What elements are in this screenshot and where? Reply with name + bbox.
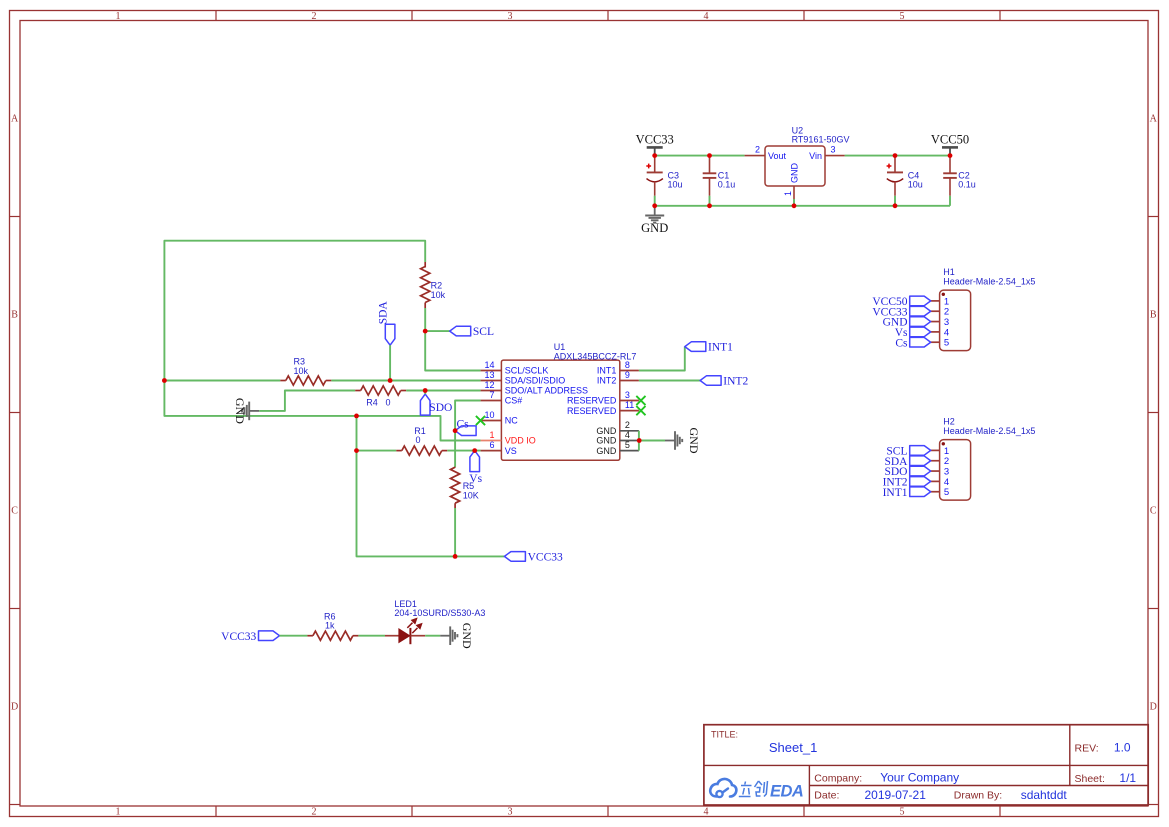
U2 pin 2 Vout <box>745 155 765 157</box>
svg-text:VS: VS <box>505 446 517 456</box>
svg-text:RESERVED: RESERVED <box>567 406 617 416</box>
svg-text:Date:: Date: <box>814 790 839 802</box>
junction <box>453 428 458 433</box>
net flag INT2 <box>700 376 748 388</box>
net flag SCL <box>450 326 494 338</box>
svg-text:11: 11 <box>625 400 634 410</box>
wire GND bottom rail <box>655 205 950 207</box>
svg-text:2: 2 <box>755 144 760 154</box>
svg-text:2: 2 <box>312 807 317 818</box>
junction <box>637 438 642 443</box>
net flag VCC33 (LED) <box>221 631 279 643</box>
svg-text:R3: R3 <box>294 357 306 367</box>
svg-text:SDA: SDA <box>377 301 389 325</box>
net flag INT2 (H2 pin 4) <box>883 476 931 488</box>
svg-text:TITLE:: TITLE: <box>711 729 738 739</box>
U1 pin 1 VDD IO <box>481 430 536 446</box>
svg-text:10k: 10k <box>294 366 309 376</box>
svg-text:1: 1 <box>116 11 121 22</box>
svg-text:SDO/ALT ADDRESS: SDO/ALT ADDRESS <box>505 386 588 396</box>
svg-text:204-10SURD/S530-A3: 204-10SURD/S530-A3 <box>394 608 485 618</box>
junction <box>893 153 898 158</box>
svg-text:5: 5 <box>900 11 905 22</box>
svg-text:Vout: Vout <box>768 151 787 161</box>
resistor R4 0 <box>355 386 406 407</box>
svg-text:Header-Male-2.54_1x5: Header-Male-2.54_1x5 <box>943 276 1035 286</box>
logo text 立创 (strokes) <box>739 781 768 797</box>
H1 pin 3 <box>931 317 949 328</box>
wire SDA line <box>164 380 280 382</box>
connector H1 Header-Male-2.54_1x5 body <box>940 267 1036 351</box>
resistor R6 1k <box>307 611 358 640</box>
svg-text:C: C <box>11 506 18 517</box>
op-amp U1 ADXL345BCCZ-RL7 body <box>501 342 636 460</box>
resistor R3 10k <box>280 357 331 385</box>
resistor R5 10K <box>451 467 479 508</box>
svg-text:Sheet_1: Sheet_1 <box>769 740 817 755</box>
U1 pin 13 SDA/SDI/SDIO <box>481 370 566 386</box>
H1 pin 1 <box>931 296 949 307</box>
net flag INT1 <box>685 342 733 354</box>
ground GND (U1 right) <box>665 428 701 454</box>
svg-text:1: 1 <box>783 191 793 196</box>
junction <box>472 448 477 453</box>
junction <box>652 153 657 158</box>
wire R6 to LED1 <box>358 635 385 637</box>
svg-text:GND: GND <box>596 446 617 456</box>
H1 pin 4 <box>931 327 949 338</box>
svg-text:4: 4 <box>625 430 630 440</box>
wire SDO flag stub <box>424 391 426 395</box>
resistor R2 10k <box>421 262 446 308</box>
svg-text:D: D <box>11 702 18 713</box>
net flag SDO <box>420 394 452 415</box>
svg-text:D: D <box>1150 702 1157 713</box>
wire R4 to SDO pin <box>406 390 480 392</box>
wire GND bracket U1 <box>638 431 640 451</box>
net flag INT1 (H2 pin 5) <box>883 487 931 499</box>
title block Date / Drawn By <box>814 788 1067 802</box>
svg-text:B: B <box>1150 310 1157 321</box>
U1 pin 4 GND <box>596 430 639 446</box>
U1 pin 3 RESERVED <box>567 390 639 406</box>
junction <box>652 203 657 208</box>
svg-text:Cs: Cs <box>457 418 470 430</box>
no-connect X pin 11 <box>636 406 645 415</box>
wire INT1 <box>639 347 685 371</box>
wire GND to R4 <box>259 391 355 411</box>
logo LCEDA cloud <box>710 779 736 797</box>
svg-text:R4: R4 <box>366 397 378 407</box>
svg-text:GND: GND <box>596 436 617 446</box>
wire bottom VCC33 rail <box>357 416 505 557</box>
svg-text:GND: GND <box>460 623 474 649</box>
wire CS# to R5 <box>455 401 481 468</box>
wire SDA flag drop <box>389 345 391 380</box>
ground GND (left, at R4) <box>233 398 259 424</box>
svg-text:13: 13 <box>484 370 494 380</box>
net flag Cs (H1 pin 5) <box>895 337 930 349</box>
svg-text:0: 0 <box>415 435 420 445</box>
svg-text:0.1u: 0.1u <box>718 180 736 190</box>
svg-text:CS#: CS# <box>505 396 523 406</box>
junction <box>423 388 428 393</box>
wire top-left rail <box>164 241 425 381</box>
svg-text:GND: GND <box>596 426 617 436</box>
wire R1 line from rail <box>357 450 397 452</box>
H2 pin 2 <box>931 456 949 467</box>
ground GND (power section) <box>641 206 668 235</box>
svg-text:7: 7 <box>489 390 494 400</box>
svg-text:5: 5 <box>944 338 949 349</box>
title block frame <box>704 725 1148 805</box>
wire R5 to bottom rail <box>454 508 456 556</box>
junction <box>388 378 393 383</box>
svg-text:Header-Male-2.54_1x5: Header-Male-2.54_1x5 <box>943 426 1035 436</box>
U1 pin 6 VS <box>481 440 517 456</box>
LED LED1 204-10SURD/S530-A3 <box>385 599 485 644</box>
junction <box>707 203 712 208</box>
capacitor C2 0.1u <box>943 156 976 206</box>
svg-text:5: 5 <box>900 807 905 818</box>
net flag SDO (H2 pin 3) <box>884 466 930 478</box>
svg-text:3: 3 <box>831 144 836 154</box>
svg-text:14: 14 <box>484 360 494 370</box>
net flag GND (H1 pin 3) <box>883 317 931 329</box>
title block Sheet <box>1075 771 1137 785</box>
junction <box>354 414 359 419</box>
no-connect X pin 3 <box>636 396 645 405</box>
H2 pin 3 <box>931 466 949 477</box>
U1 pin 11 RESERVED <box>567 400 639 416</box>
junction <box>423 329 428 334</box>
junction <box>162 378 167 383</box>
wire VCC33 top rail <box>655 155 745 157</box>
svg-text:1.0: 1.0 <box>1114 741 1131 755</box>
svg-text:1/1: 1/1 <box>1119 771 1136 785</box>
svg-text:VCC33: VCC33 <box>636 132 674 146</box>
wire LED1 to GND <box>425 635 440 637</box>
H1 pin 5 <box>931 338 949 349</box>
regulator U2 RT9161-50GV <box>745 126 850 206</box>
svg-text:1k: 1k <box>325 620 335 630</box>
svg-text:VDD IO: VDD IO <box>505 436 536 446</box>
svg-text:RESERVED: RESERVED <box>567 396 617 406</box>
power flag VCC50 <box>931 132 969 155</box>
svg-text:4: 4 <box>704 807 709 818</box>
svg-text:4: 4 <box>704 11 709 22</box>
U1 pin 2 GND <box>596 420 639 436</box>
U1 pin 8 INT1 <box>597 360 639 376</box>
junction <box>453 554 458 559</box>
svg-text:SCL/SCLK: SCL/SCLK <box>505 366 549 376</box>
svg-text:VCC50: VCC50 <box>931 132 969 146</box>
net flag VCC33 (bottom) <box>504 552 563 564</box>
svg-text:REV:: REV: <box>1075 742 1099 754</box>
net flag VCC50 (H1 pin 1) <box>872 296 930 308</box>
capacitor C3 10u <box>646 156 682 206</box>
svg-text:Your Company: Your Company <box>880 771 959 785</box>
wire U1 GND to symbol <box>639 440 665 442</box>
svg-text:5: 5 <box>944 487 949 498</box>
H2 pin 5 <box>931 487 949 498</box>
svg-text:Company:: Company: <box>814 772 862 784</box>
no-connect X pin 10 <box>476 416 485 425</box>
U2 pin 3 Vin <box>825 155 845 157</box>
svg-text:10K: 10K <box>463 491 479 501</box>
junction <box>948 153 953 158</box>
svg-text:9: 9 <box>625 370 630 380</box>
svg-text:VCC33: VCC33 <box>221 631 256 643</box>
svg-text:Cs: Cs <box>895 337 908 349</box>
title block Company <box>814 771 959 785</box>
svg-text:GND: GND <box>233 398 247 424</box>
svg-text:3: 3 <box>508 11 513 22</box>
svg-text:R2: R2 <box>431 280 443 290</box>
wire VCC33 to R6 <box>280 635 308 637</box>
title block REV <box>1075 741 1131 755</box>
frame column numbers top <box>116 11 905 22</box>
frame column numbers bottom <box>116 807 905 818</box>
U1 pin 9 INT2 <box>597 370 639 386</box>
svg-text:RT9161-50GV: RT9161-50GV <box>792 135 850 145</box>
svg-text:0: 0 <box>385 397 390 407</box>
svg-text:12: 12 <box>484 380 494 390</box>
svg-text:1: 1 <box>116 807 121 818</box>
svg-text:A: A <box>11 114 19 125</box>
H2 pin 4 <box>931 477 949 488</box>
svg-text:5: 5 <box>625 440 630 450</box>
svg-text:1: 1 <box>489 430 494 440</box>
junction <box>792 203 797 208</box>
svg-text:Drawn By:: Drawn By: <box>954 790 1002 802</box>
net flag VCC33 (H1 pin 2) <box>872 306 930 318</box>
svg-text:sdahtddt: sdahtddt <box>1021 788 1068 802</box>
svg-text:C: C <box>1150 506 1157 517</box>
U1 pin 12 SDO/ALT ADDRESS <box>481 380 588 396</box>
wire INT2 <box>639 380 700 382</box>
svg-text:SCL: SCL <box>473 326 494 338</box>
svg-text:3: 3 <box>508 807 513 818</box>
net flag SDA <box>377 301 395 346</box>
U1 pin 14 SCL/SCLK <box>481 360 549 376</box>
resistor R1 0 <box>396 426 447 455</box>
junction <box>354 448 359 453</box>
svg-text:10: 10 <box>484 410 494 420</box>
svg-text:GND: GND <box>790 163 800 184</box>
net flag Vs <box>469 451 482 485</box>
svg-text:Vin: Vin <box>809 151 822 161</box>
svg-text:INT1: INT1 <box>883 487 908 499</box>
power flag VCC33 <box>636 132 674 155</box>
ground GND (LED) <box>440 623 474 649</box>
net flag SCL (H2 pin 1) <box>886 446 930 458</box>
wire R1 to VS pin <box>447 450 480 452</box>
svg-text:GND: GND <box>641 221 668 235</box>
svg-text:0.1u: 0.1u <box>958 180 976 190</box>
svg-text:2019-07-21: 2019-07-21 <box>865 788 927 802</box>
svg-text:2: 2 <box>625 420 630 430</box>
svg-text:2: 2 <box>312 11 317 22</box>
H1 pin 2 <box>931 307 949 318</box>
capacitor C1 0.1u <box>703 156 736 206</box>
svg-text:SDO: SDO <box>429 402 452 414</box>
svg-text:10k: 10k <box>431 290 446 300</box>
svg-text:Vs: Vs <box>469 473 482 485</box>
U1 pin 10 NC <box>481 410 519 426</box>
wire U2 pin3 to VCC50 <box>845 155 950 157</box>
svg-text:EDA: EDA <box>770 783 803 801</box>
frame row letters left <box>11 114 19 713</box>
junction <box>707 153 712 158</box>
svg-text:10u: 10u <box>908 180 923 190</box>
U1 pin 7 CS# <box>481 390 523 406</box>
svg-text:10u: 10u <box>668 180 683 190</box>
frame row letters right <box>1150 114 1158 713</box>
svg-text:VCC33: VCC33 <box>528 552 563 564</box>
wire SCL stub to net flag <box>425 330 450 332</box>
svg-text:A: A <box>1150 114 1158 125</box>
H2 pin 1 <box>931 446 949 457</box>
net flag Cs <box>455 418 476 435</box>
svg-text:INT2: INT2 <box>597 376 617 386</box>
svg-text:SDA/SDI/SDIO: SDA/SDI/SDIO <box>505 376 566 386</box>
svg-text:INT1: INT1 <box>597 366 617 376</box>
wire R2 bottom to SCL pin <box>425 308 480 371</box>
svg-text:Sheet:: Sheet: <box>1075 773 1105 785</box>
U2 pin 1 GND <box>793 186 795 199</box>
svg-text:GND: GND <box>687 428 701 454</box>
svg-text:6: 6 <box>489 440 494 450</box>
svg-text:NC: NC <box>505 416 518 426</box>
wire left rail lower <box>164 381 480 441</box>
svg-text:8: 8 <box>625 360 630 370</box>
connector H2 Header-Male-2.54_1x5 body <box>940 417 1036 501</box>
svg-text:INT1: INT1 <box>708 342 733 354</box>
net flag Vs (H1 pin 4) <box>895 327 931 339</box>
net flag SDA (H2 pin 2) <box>884 456 930 468</box>
svg-text:3: 3 <box>625 390 630 400</box>
capacitor C4 10u <box>887 156 923 206</box>
U1 pin 5 GND <box>596 440 639 456</box>
svg-text:B: B <box>11 310 18 321</box>
svg-text:INT2: INT2 <box>723 376 748 388</box>
junction <box>893 203 898 208</box>
